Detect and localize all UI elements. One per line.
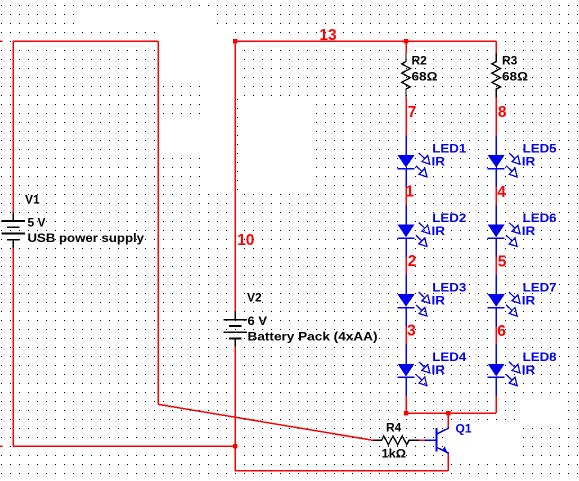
wire R3 top: [495, 41, 497, 53]
wire left vertical lower: [12, 248, 14, 447]
svg-text:Battery Pack (4xAA): Battery Pack (4xAA): [248, 330, 378, 344]
svg-text:68Ω: 68Ω: [502, 70, 528, 84]
white (dotless) regions: [82, 7, 217, 28]
wire emitter vertical: [447, 454, 449, 471]
svg-text:2: 2: [408, 253, 417, 270]
svg-text:LED7: LED7: [523, 281, 557, 295]
svg-text:IR: IR: [522, 294, 536, 308]
wire bottom LED horizontal: [406, 412, 496, 414]
LED LED7: [488, 275, 520, 327]
svg-text:IR: IR: [432, 294, 446, 308]
junction bottom left: [233, 444, 237, 448]
svg-text:LED5: LED5: [523, 141, 557, 155]
svg-text:IR: IR: [522, 224, 536, 238]
wire stub left-top: [0, 40, 3, 42]
svg-text:V2: V2: [247, 291, 262, 305]
wire R2 top: [405, 41, 407, 53]
LED LED2: [398, 205, 430, 257]
battery V1: [1, 212, 25, 247]
wire V2 vertical upper: [234, 41, 236, 311]
svg-text:5: 5: [498, 254, 507, 271]
resistor R4: [373, 436, 419, 445]
svg-text:R3: R3: [502, 54, 518, 68]
svg-text:1kΩ: 1kΩ: [382, 447, 407, 461]
svg-text:IR: IR: [432, 224, 446, 238]
svg-text:R4: R4: [386, 421, 402, 435]
wire stub left-bottom: [0, 445, 3, 447]
svg-text:IR: IR: [432, 363, 446, 377]
junction at node 13 corner: [233, 39, 237, 43]
wire net 2: [405, 257, 407, 275]
resistor R2: [402, 53, 411, 97]
junction R2 top: [404, 39, 408, 43]
wire net 1: [405, 187, 407, 205]
svg-text:IR: IR: [432, 154, 446, 168]
svg-text:10: 10: [237, 232, 254, 249]
wire mid vertical: [157, 41, 159, 404]
wire net 7: [405, 98, 407, 136]
svg-text:LED8: LED8: [523, 350, 557, 364]
wire diagonal to R4: [158, 404, 373, 440]
LED LED8: [488, 344, 520, 396]
svg-text:6 V: 6 V: [248, 314, 268, 328]
LED LED1: [398, 135, 430, 187]
wire R4 to base: [419, 439, 424, 441]
LED LED3: [398, 275, 430, 327]
LED LED4: [398, 344, 430, 396]
svg-text:8: 8: [498, 104, 507, 121]
wire net 6: [495, 326, 497, 344]
svg-text:LED1: LED1: [432, 141, 466, 155]
svg-text:7: 7: [408, 104, 417, 121]
junction collector node: [446, 411, 450, 415]
wire collector vertical: [447, 413, 449, 427]
svg-text:LED2: LED2: [432, 211, 466, 225]
svg-text:V1: V1: [25, 193, 40, 207]
wire net 8: [495, 98, 497, 136]
wire bottom horizontal to emitter: [235, 470, 448, 472]
svg-text:LED4: LED4: [432, 350, 466, 364]
svg-text:5 V: 5 V: [28, 216, 46, 230]
svg-text:3: 3: [407, 323, 416, 340]
svg-text:4: 4: [497, 184, 506, 201]
wire net 4: [495, 187, 497, 205]
wire bottom-left horizontal: [13, 445, 235, 447]
wire top-left horizontal: [13, 40, 158, 42]
wire LED8 to node: [495, 396, 497, 413]
svg-text:IR: IR: [522, 154, 536, 168]
svg-text:Q1: Q1: [456, 422, 472, 436]
wire net 5: [495, 257, 497, 275]
wire net 3: [405, 326, 407, 344]
wire LED4 to node: [405, 396, 407, 413]
LED LED5: [488, 135, 520, 187]
wire left vertical upper: [12, 41, 14, 212]
wire top horizontal net 13: [235, 40, 496, 42]
svg-text:6: 6: [497, 323, 506, 340]
transistor Q1: [424, 427, 448, 454]
svg-text:1: 1: [405, 183, 414, 200]
svg-text:R2: R2: [412, 54, 428, 68]
svg-text:IR: IR: [522, 363, 536, 377]
LED LED6: [488, 205, 520, 257]
svg-text:68Ω: 68Ω: [412, 70, 438, 84]
junction LED4 bottom: [404, 411, 408, 415]
battery V2: [223, 311, 247, 346]
svg-text:USB power supply: USB power supply: [28, 231, 145, 245]
resistor R3: [492, 53, 501, 97]
wire V2 vertical lower: [234, 347, 236, 471]
svg-text:13: 13: [319, 27, 337, 44]
svg-text:LED3: LED3: [432, 281, 466, 295]
svg-text:LED6: LED6: [523, 211, 557, 225]
